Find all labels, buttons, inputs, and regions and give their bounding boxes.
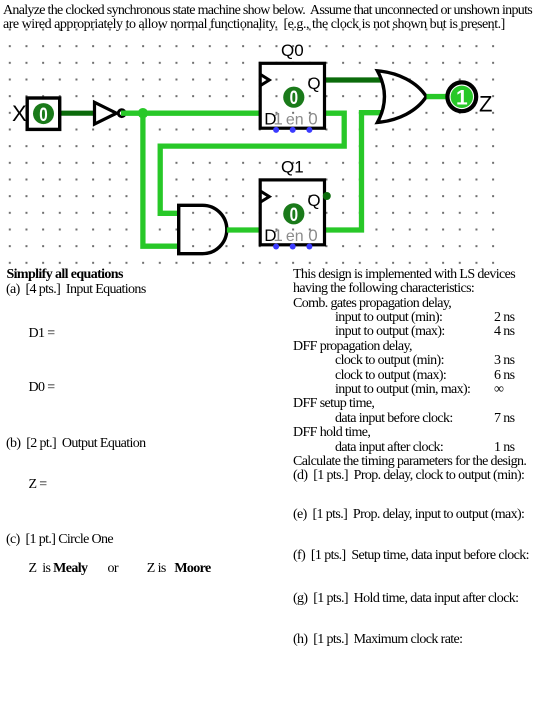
svg-text:0: 0 [308,110,317,129]
label Z [479,91,492,116]
top paragraph [3,4,532,18]
svg-text:0: 0 [290,203,298,225]
output pin Z [447,82,476,111]
svg-text:en: en [286,228,304,245]
wire inverter output to D of Q0 (logic 1) [121,111,260,116]
svg-text:Z: Z [479,91,492,116]
svg-text:Q0: Q0 [281,41,304,60]
input pin X [27,98,60,129]
wire Q0 Q output to OR gate upper input (logic 0) [325,77,382,82]
AND gate [179,205,227,253]
wire Q1 Qbar to OR gate lower input (logic 1) [325,113,383,230]
wire OR output to Z [427,94,448,99]
svg-text:X: X [12,101,27,126]
right column text [293,268,515,282]
D flip-flop Q0 [260,63,324,133]
D flip-flop Q1 [260,180,324,250]
Q1 Q output pin dot (logic 0) [323,192,331,200]
junction node [138,108,148,118]
svg-text:1: 1 [456,86,468,109]
svg-text:Q: Q [307,191,320,210]
NOT gate U1 [95,102,126,124]
grid background (decorative) [8,28,495,264]
label Q1 [281,157,304,176]
wire AND output to D of Q1 [227,227,260,232]
svg-text:1: 1 [273,110,282,129]
wire X to inverter (logic 0, dark green) [58,111,95,116]
label X [12,101,27,126]
wire junction down to AND gate lower input [143,113,179,246]
left column text [7,268,123,282]
svg-text:0: 0 [290,87,298,109]
wire Q0 Qbar to AND gate upper input [160,113,344,213]
svg-text:Q1: Q1 [281,157,304,176]
svg-text:Q: Q [307,74,320,93]
OR gate [377,71,426,123]
label Q0 [281,41,304,60]
svg-text:en: en [286,112,304,129]
svg-text:1: 1 [273,226,282,245]
svg-text:0: 0 [308,226,317,245]
svg-text:0: 0 [39,103,47,125]
